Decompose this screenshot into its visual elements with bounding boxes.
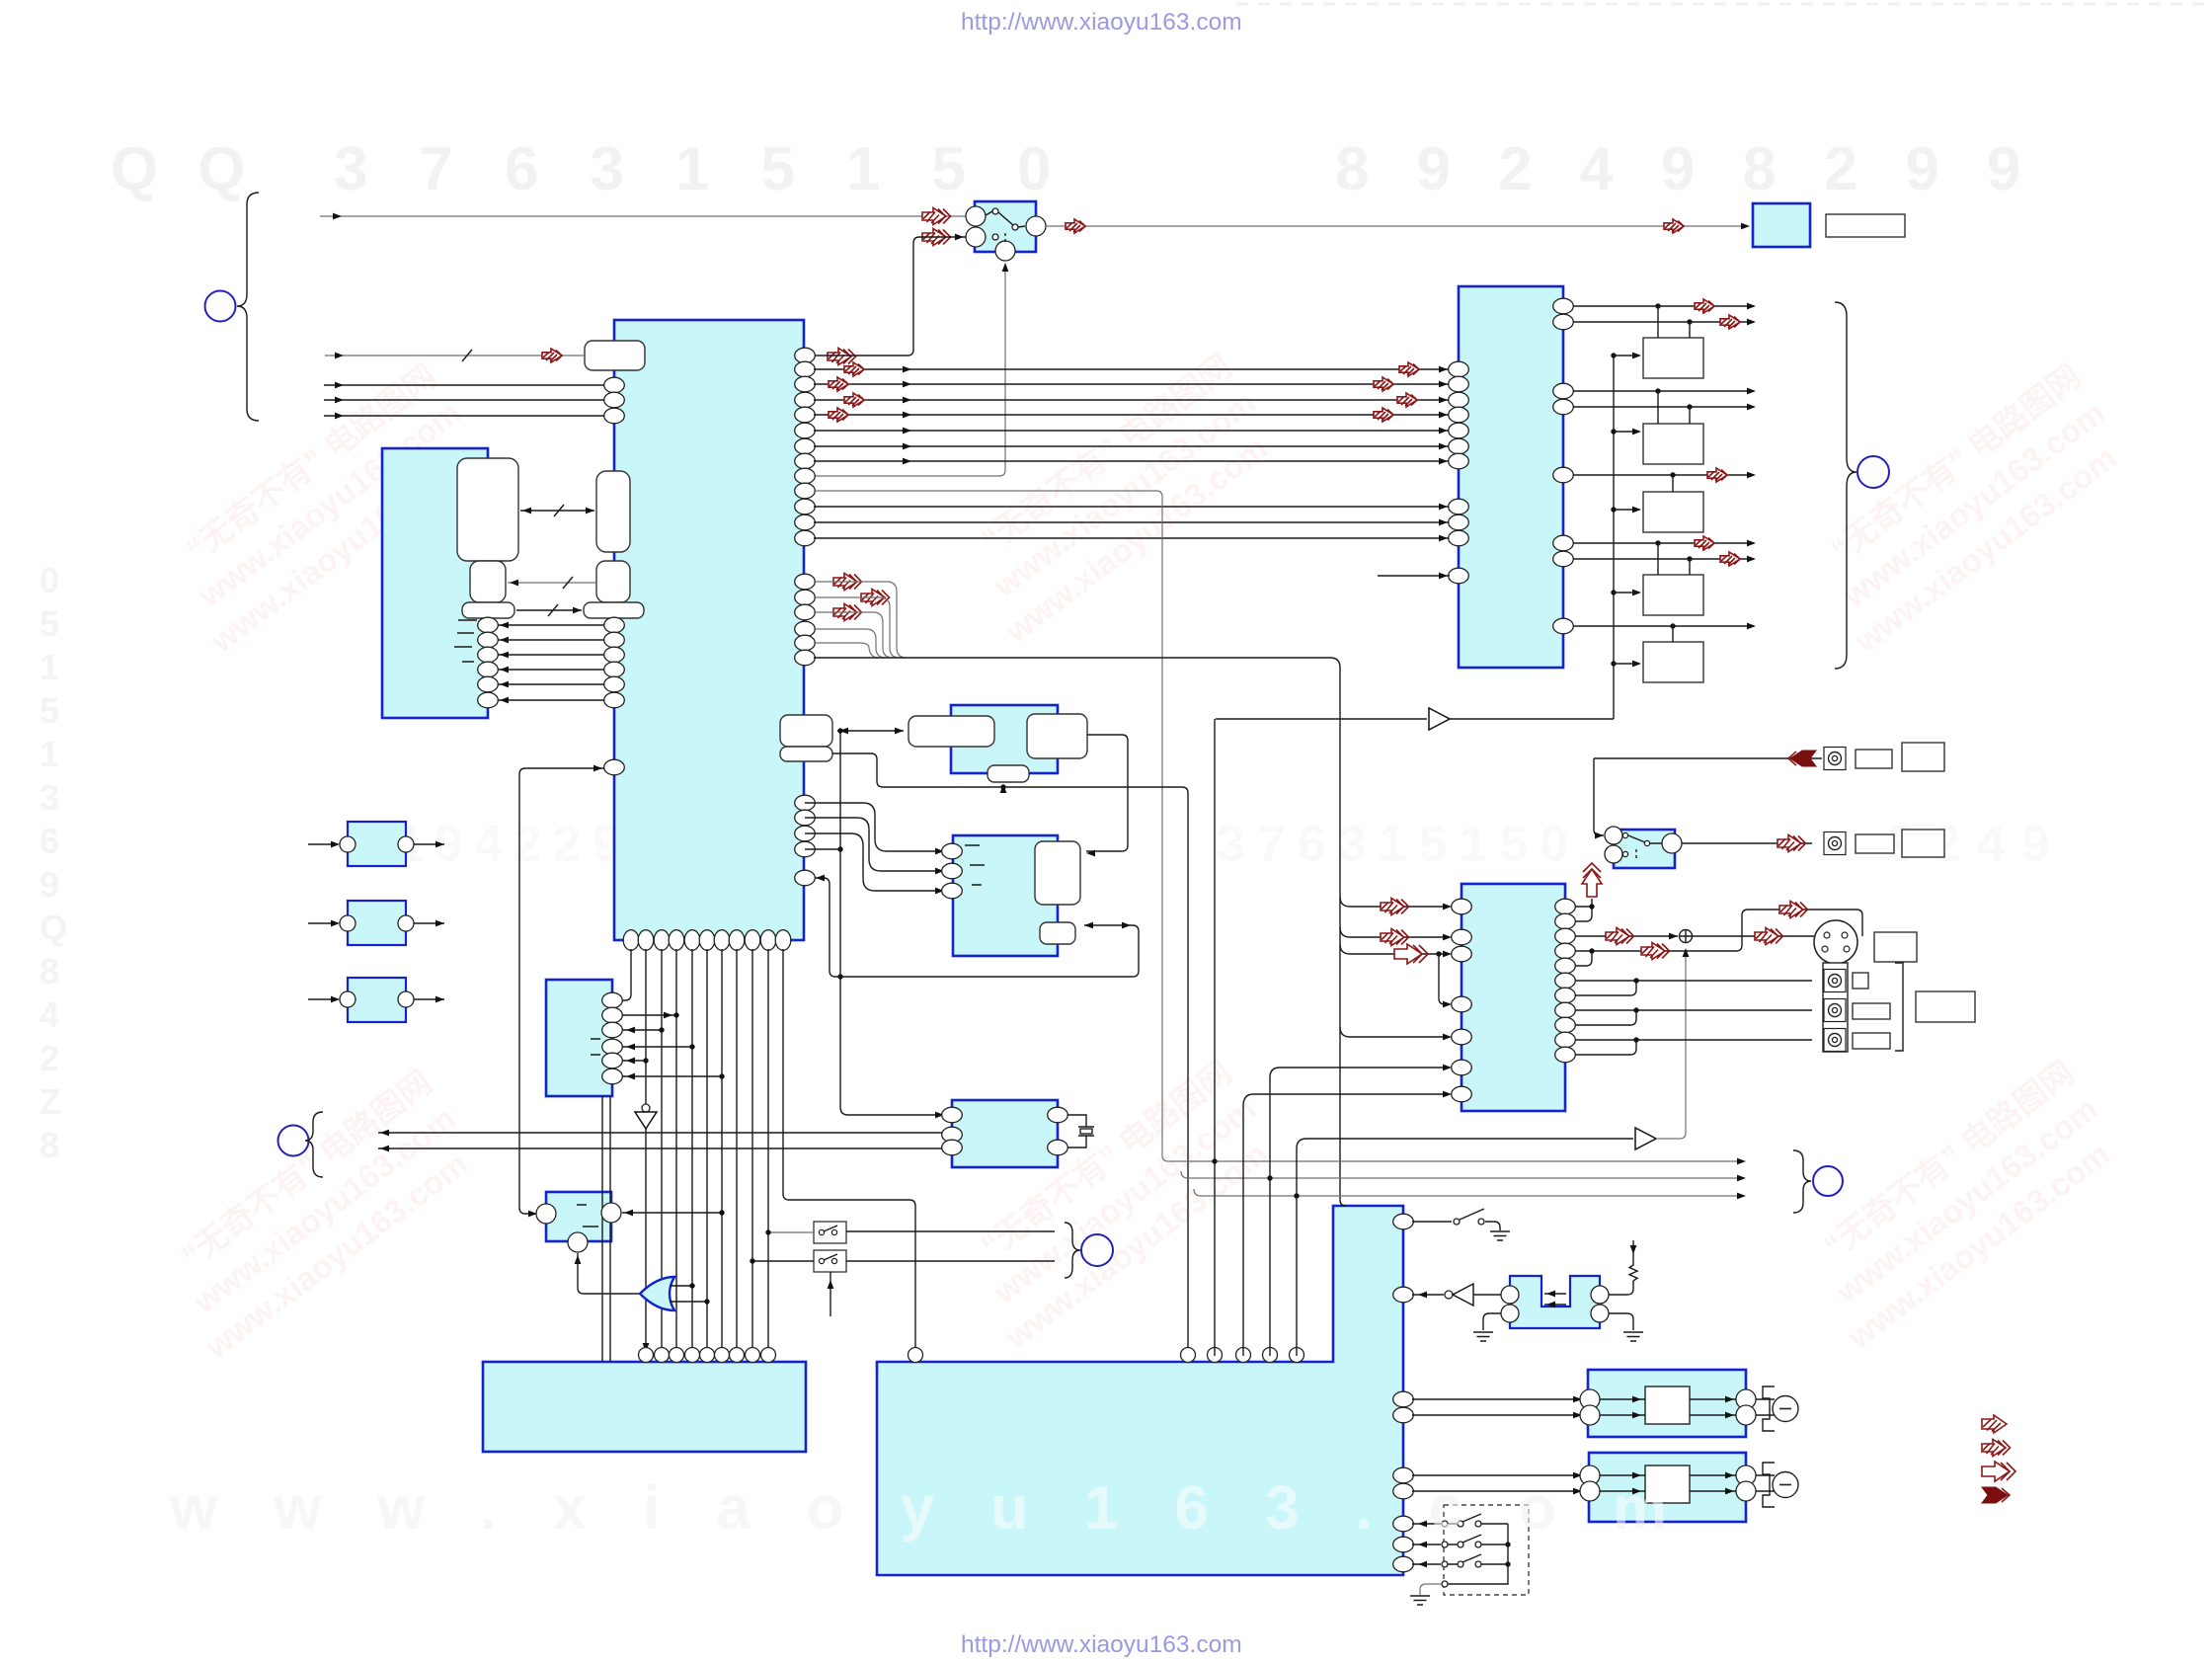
- amp B internal: [1600, 1465, 1736, 1503]
- svg-text:http://www.xiaoyu163.com: http://www.xiaoyu163.com: [961, 9, 1242, 36]
- wires 3 control lines into CPU: [324, 382, 604, 420]
- label rects CPU right middle: [780, 715, 832, 747]
- filter box FL1: [348, 822, 406, 866]
- wire display to CPU gray: [508, 577, 596, 589]
- CPU bottom pins: [623, 930, 791, 951]
- selector right pins: [1555, 899, 1576, 1063]
- switch block S2 right: [1614, 830, 1675, 868]
- tower right pins: [1393, 1214, 1414, 1303]
- long wires to left connector: [378, 1130, 942, 1152]
- arrow below switch 2: [828, 1272, 834, 1316]
- wires buffer block to bus: [622, 994, 725, 1079]
- RCA jacks column: [1824, 970, 1846, 992]
- svg-text:www.xiaoyu163.com: www.xiaoyu163.com: [169, 1474, 1723, 1543]
- three monitor lines with arrows: [1168, 1158, 1746, 1200]
- bus wires CPU to driver IC: [814, 366, 1450, 542]
- brace bottom left: [305, 1112, 323, 1177]
- dashed switch box: [1444, 1505, 1529, 1595]
- wire pill to pill: [516, 604, 582, 616]
- red arrows at S1 inputs: [922, 208, 951, 225]
- buffer block tick marks: [591, 1039, 600, 1055]
- RCA output block: [1823, 963, 1848, 1052]
- CPU right pins middle group: [795, 574, 816, 666]
- inverter at tower pin2: [1412, 1284, 1503, 1306]
- jumper right ground: [1609, 1313, 1643, 1341]
- RCA labels: [1853, 973, 1868, 989]
- bus arrow CPU to display block: [520, 505, 594, 516]
- wire CPU pin10 down long vertical: [814, 491, 1168, 1161]
- amp module block B: [1589, 1453, 1746, 1522]
- wire PLL small rect loop: [840, 922, 1139, 977]
- svg-text:3: 3: [39, 777, 59, 818]
- power amp top pins: [639, 1348, 1304, 1363]
- wires into mute switches: [750, 1229, 814, 1263]
- wire selector pin7 feed: [1270, 1065, 1452, 1178]
- wire IF right rect loop to PLL: [1086, 735, 1128, 856]
- S1 pins and contacts: [966, 206, 1046, 261]
- filter box FL2: [348, 901, 406, 945]
- connector circle top left: [205, 291, 236, 322]
- amp A internal: [1600, 1386, 1736, 1424]
- switch block S1 top: [975, 201, 1036, 252]
- buffer2 triangle: [1635, 1128, 1656, 1149]
- bracket right of RCA: [1895, 963, 1903, 1051]
- wire S2 to tape out RCA: [1682, 835, 1812, 852]
- display block right pins: [478, 617, 499, 708]
- jumper left ground: [1473, 1313, 1501, 1341]
- clock block right pins: [1048, 1107, 1068, 1155]
- test point block top right: [1753, 203, 1810, 247]
- label rect next to test point: [1826, 214, 1905, 237]
- wire pill path to PAM top pin via y797: [832, 753, 1188, 1356]
- svg-text:8: 8: [39, 951, 59, 991]
- wire data line into CPU label: [325, 349, 585, 362]
- wire buffer2 line: [1297, 1139, 1633, 1196]
- buffer triangle: [1429, 708, 1450, 730]
- wires CPU to PLL pins: [805, 803, 944, 894]
- vertical taps into output rects: [1658, 306, 1690, 642]
- crystal X1: [1067, 1115, 1094, 1148]
- resistor and arrow at jumper output: [1609, 1240, 1637, 1295]
- connector brace top left: [237, 193, 259, 421]
- DIN connector: [1814, 920, 1857, 964]
- selector left pins: [1452, 899, 1472, 1102]
- PLL left pins: [942, 843, 963, 899]
- amp A pins: [1580, 1389, 1756, 1425]
- svg-text:1: 1: [39, 647, 59, 687]
- wire selector pin8 feed: [1243, 1091, 1452, 1106]
- wire into driver enable pin: [1378, 573, 1450, 580]
- red up arrow to S2: [1582, 863, 1602, 897]
- wires to amp A: [1412, 1396, 1582, 1419]
- wire tape in line to S1: [320, 213, 975, 220]
- label rects on PLL block: [1035, 841, 1080, 905]
- IC display/key block left: [382, 448, 488, 718]
- svg-text:4: 4: [39, 994, 59, 1035]
- speaker B: [1756, 1463, 1798, 1507]
- svg-text:5: 5: [39, 603, 59, 644]
- DIN label rect: [1874, 932, 1917, 962]
- IC key matrix block bottom left: [483, 1362, 806, 1452]
- red arrows middle group: [833, 574, 862, 591]
- clock block left pins: [942, 1107, 963, 1155]
- wire sel p1p2 up to S2: [1575, 899, 1595, 921]
- switch to ground at tower pin1: [1412, 1209, 1510, 1240]
- reset box pins: [536, 1203, 621, 1252]
- label rect far right: [1916, 991, 1975, 1022]
- driver output rects column: [1643, 338, 1703, 378]
- dashed box switches: [1412, 1514, 1511, 1595]
- svg-text:5: 5: [39, 690, 59, 731]
- watermark left vertical digits: [39, 560, 67, 1165]
- jumper internal arrows: [1544, 1291, 1566, 1308]
- IC audio selector block right: [1461, 884, 1565, 1111]
- buffer block right pins: [602, 992, 623, 1084]
- mute switch box 2: [814, 1250, 846, 1272]
- filter boxes pins and wires: [308, 836, 444, 852]
- wire sel p4p5 loop to DIN top: [1575, 902, 1862, 967]
- reset box tick marks: [577, 1205, 598, 1227]
- svg-text:376315150: 376315150: [334, 135, 1102, 203]
- svg-text:6: 6: [39, 821, 59, 861]
- mixer circle: [1680, 930, 1693, 943]
- watermark tiny top row: [1236, 3, 2204, 6]
- svg-text:2: 2: [39, 1038, 59, 1078]
- label rects on IF block: [908, 716, 994, 747]
- connector circle bottom left: [278, 1126, 309, 1156]
- brace and connector right of monitor lines: [1793, 1150, 1811, 1213]
- svg-text:8: 8: [39, 1125, 59, 1165]
- IC power amp block bottom center: [877, 1206, 1403, 1575]
- wire IF bottom pill feedback: [837, 728, 944, 1118]
- wire S1 output to test point: [1046, 219, 1750, 233]
- S2 pins and contacts: [1605, 827, 1682, 863]
- OR gate input wires: [670, 1283, 710, 1304]
- CPU left pins top: [604, 377, 625, 424]
- bidir arrow CPU to IF: [837, 728, 904, 735]
- wire reset right pin from bus7: [622, 1210, 725, 1217]
- wire CPU pin1 up to S1: [814, 234, 966, 356]
- filter box FL3: [348, 978, 406, 1022]
- bundle wires merging right: [814, 582, 907, 658]
- legend arrow 3: [1982, 1462, 2015, 1481]
- IC buffer block lower left: [546, 980, 612, 1096]
- bundle wires into selector: [1340, 897, 1452, 1040]
- power amp right pins: [1393, 1391, 1414, 1572]
- jumper block U-shape: [1510, 1276, 1600, 1328]
- svg-text:9: 9: [39, 864, 59, 905]
- wire monitor line into S2: [1594, 758, 1604, 838]
- red arrow CPU pin1 wire: [828, 349, 856, 365]
- red arrows on bus near CPU: [844, 362, 864, 376]
- label rects CPU/display data bus: [457, 458, 518, 561]
- wires selector to RCA outputs: [1575, 978, 1812, 1055]
- amp B pins: [1580, 1465, 1756, 1501]
- buffer line into daisy chain: [1216, 718, 1614, 720]
- tape out RCA jack: [1824, 832, 1846, 855]
- mute switch box 1: [814, 1222, 846, 1243]
- driver left pins: [1449, 361, 1469, 584]
- svg-text:Q: Q: [39, 908, 67, 948]
- wire buffer2 to mixer: [1656, 948, 1689, 1139]
- daisy chain vertical feeding rects: [1611, 353, 1641, 719]
- amp module block A: [1588, 1370, 1746, 1437]
- verticals into power amp from selector area: [1214, 719, 1216, 1356]
- bundle main wire to power amp tower: [814, 658, 1346, 1206]
- label rect on CPU top-left: [585, 341, 645, 370]
- vertical bus wires down: [631, 949, 915, 1356]
- buffer block bottom verticals: [602, 1096, 610, 1362]
- inverter on clock line: [635, 1104, 657, 1129]
- dashed box ground: [1410, 1596, 1430, 1605]
- tape out labels: [1856, 834, 1894, 853]
- CPU left pins lower: [604, 617, 625, 708]
- watermark pink diagonal stamps: [150, 357, 495, 660]
- svg-text:0: 0: [39, 560, 59, 600]
- IC reset block: [546, 1192, 611, 1241]
- brace and connector small: [1065, 1223, 1080, 1278]
- IC clock block with crystal: [952, 1100, 1058, 1167]
- svg-text:Z: Z: [39, 1081, 61, 1122]
- wires to amp B: [1412, 1472, 1582, 1495]
- CPU left feedback pin: [604, 759, 625, 775]
- monitor RCA jack: [1824, 748, 1846, 770]
- wires mute switches to connector: [846, 1231, 1055, 1261]
- svg-text:376315150: 376315150: [1217, 816, 1580, 873]
- legend arrow 2: [1982, 1440, 2011, 1457]
- tick marks display block: [454, 620, 477, 662]
- legend arrow 4: [1982, 1487, 2010, 1503]
- CPU right pins upper group: [795, 348, 816, 546]
- OR gate: [640, 1277, 674, 1310]
- wire sel record out to DIN via mixer: [1575, 928, 1814, 945]
- IC tuner/IF block middle: [951, 705, 1058, 773]
- CPU right pins lower group: [795, 795, 816, 886]
- svg-text:1: 1: [39, 734, 59, 774]
- wire reset bottom to OR output: [575, 1253, 640, 1294]
- wire feedback into CPU pin via left vertical: [519, 765, 604, 1218]
- IC PLL block middle: [953, 835, 1058, 956]
- PLL tick marks: [965, 845, 985, 885]
- wires display bus six lines: [498, 622, 604, 704]
- speaker A: [1756, 1386, 1798, 1431]
- monitor output line with dark arrow: [1594, 751, 1822, 766]
- legend arrow 1: [1982, 1415, 2007, 1433]
- svg-text:http://www.xiaoyu163.com: http://www.xiaoyu163.com: [961, 1631, 1242, 1658]
- wire CPU aux pin989 join: [814, 875, 841, 977]
- driver right pins: [1553, 298, 1574, 634]
- monitor labels: [1856, 750, 1892, 768]
- brace driver outputs: [1835, 302, 1856, 669]
- IC main system control CPU: [614, 320, 804, 940]
- IC driver block top right: [1459, 286, 1563, 668]
- driver output wires with taps: [1573, 299, 1756, 629]
- wire CPU pin9 up to S1 bottom: [814, 263, 1008, 476]
- red arrows on bus near driver: [1399, 362, 1419, 376]
- connector circle driver outputs: [1857, 456, 1889, 488]
- svg-text:892498299: 892498299: [1335, 135, 2068, 203]
- jumper block pins: [1501, 1286, 1609, 1322]
